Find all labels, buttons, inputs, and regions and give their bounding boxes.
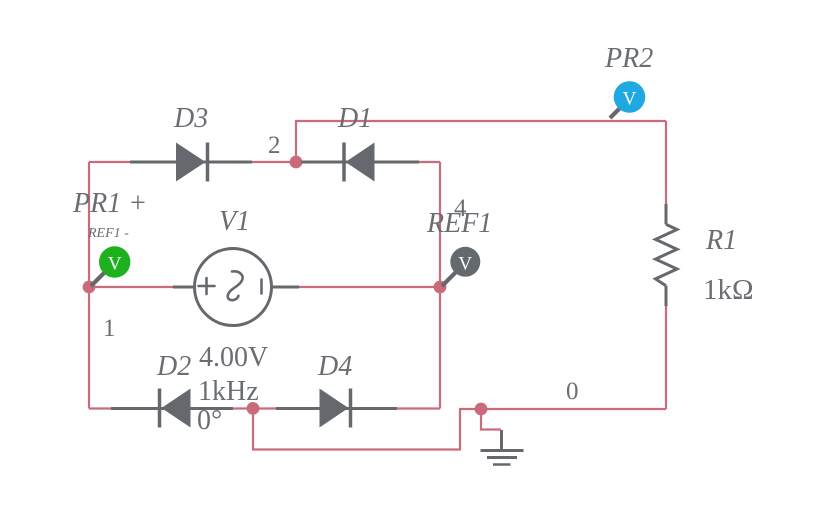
diode D2 <box>111 389 233 428</box>
node 4 junction dot <box>434 281 447 294</box>
svg-text:V: V <box>458 253 472 274</box>
svg-text:4.00V: 4.00V <box>199 342 268 373</box>
svg-text:PR1 +: PR1 + <box>72 188 147 219</box>
wire node 2 to right bridge rail <box>296 161 440 163</box>
node 2 junction dot <box>290 156 303 169</box>
svg-text:REF1 -: REF1 - <box>87 226 129 241</box>
ac source V1 <box>173 249 299 326</box>
wire ground return path <box>253 409 481 450</box>
diode D3 <box>130 143 252 182</box>
wire right rail above R1 <box>665 121 667 205</box>
wire right rail below R1 <box>665 305 667 409</box>
svg-text:1kΩ: 1kΩ <box>703 274 754 306</box>
svg-text:2: 2 <box>268 132 281 159</box>
diode D4 <box>276 389 397 428</box>
svg-text:REF1: REF1 <box>426 208 492 239</box>
probe PR2 <box>609 81 646 119</box>
ground <box>481 430 524 465</box>
svg-text:D2: D2 <box>156 351 191 382</box>
svg-text:V: V <box>108 254 122 275</box>
wire ground stub <box>481 409 501 430</box>
diode D1 <box>301 143 419 182</box>
svg-text:D3: D3 <box>173 103 208 134</box>
wire V1 row <box>89 286 440 288</box>
svg-text:0: 0 <box>566 378 579 405</box>
wire node 2 riser and top run <box>296 121 666 162</box>
ground junction dot <box>475 403 488 416</box>
svg-text:V1: V1 <box>219 206 250 237</box>
probe REF1 <box>441 247 481 288</box>
wire bottom bridge <box>89 407 440 409</box>
resistor R1 <box>656 204 678 306</box>
wire bottom net 0 <box>481 408 666 410</box>
wire left rail net 1 <box>88 162 90 409</box>
probe PR1 <box>90 246 131 287</box>
node 1 junction dot <box>83 281 96 294</box>
svg-text:D1: D1 <box>337 103 372 134</box>
svg-text:V: V <box>623 89 637 110</box>
svg-text:PR2: PR2 <box>604 43 653 74</box>
wire right bridge rail net 4 <box>439 162 441 409</box>
svg-text:1: 1 <box>103 315 116 342</box>
svg-text:1kHz: 1kHz <box>198 376 259 407</box>
bottom bridge junction dot <box>247 402 260 415</box>
svg-text:R1: R1 <box>705 225 737 256</box>
svg-text:D4: D4 <box>317 351 352 382</box>
wire top-left to node 2 <box>89 161 296 163</box>
svg-text:0°: 0° <box>197 405 222 436</box>
